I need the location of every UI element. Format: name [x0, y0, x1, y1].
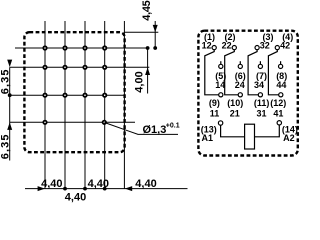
- relay body outline (dashed): [24, 32, 124, 152]
- wire row grid line 4: [10, 121, 135, 123]
- svg-text:A1: A1: [202, 133, 214, 143]
- svg-text:31: 31: [256, 108, 266, 118]
- hole pad r2c1: [43, 66, 46, 69]
- schematic box outline (dashed): [198, 31, 297, 156]
- hole pad r2c4: [103, 66, 106, 69]
- wire row grid line 2: [10, 66, 150, 68]
- coil K1: [221, 124, 280, 149]
- coil terminal A2: [277, 121, 298, 143]
- svg-text:11: 11: [210, 108, 220, 118]
- svg-text:21: 21: [230, 108, 240, 118]
- svg-text:4,40: 4,40: [65, 192, 86, 204]
- wire row grid line 1: [15, 47, 149, 49]
- svg-text:4,40: 4,40: [135, 178, 156, 190]
- hole pad r3c2: [63, 94, 66, 97]
- svg-text:12: 12: [202, 40, 212, 50]
- wire column grid line 2: [64, 21, 66, 189]
- wire column grid line 1: [44, 21, 46, 189]
- svg-text:4,00: 4,00: [134, 71, 146, 92]
- svg-text:41: 41: [273, 108, 283, 118]
- svg-text:44: 44: [276, 80, 286, 90]
- hole pads grid rows 1-3: [43, 46, 106, 124]
- dimension chain 4,40 bottom: [25, 178, 188, 204]
- svg-text:+0.1: +0.1: [166, 122, 180, 129]
- hole pad coil A1: [43, 121, 46, 124]
- svg-text:24: 24: [235, 80, 245, 90]
- hole pad r3c1: [43, 94, 46, 97]
- svg-text:6,35: 6,35: [0, 68, 11, 94]
- hole pad r1c3: [83, 46, 86, 49]
- svg-text:42: 42: [280, 40, 290, 50]
- hole pad r2c2: [63, 66, 66, 69]
- svg-text:4,40: 4,40: [41, 178, 62, 190]
- wire row grid line 3: [10, 94, 126, 96]
- dimension 6,35 upper left: [0, 60, 12, 161]
- svg-text:4,40: 4,40: [88, 178, 109, 190]
- svg-text:(11): (11): [254, 98, 270, 108]
- svg-text:(10): (10): [227, 98, 243, 108]
- svg-text:6,35: 6,35: [0, 133, 11, 159]
- hole pad r3c3: [83, 94, 86, 97]
- hole pad r1c4: [103, 46, 106, 49]
- svg-text:34: 34: [254, 80, 264, 90]
- svg-text:Ø1,3: Ø1,3: [143, 124, 167, 136]
- svg-text:(12): (12): [270, 98, 286, 108]
- hole pad r1c1: [43, 46, 46, 49]
- dimension 4,00 right: [134, 46, 151, 93]
- svg-text:14: 14: [215, 80, 225, 90]
- hole pad r2c3: [83, 66, 86, 69]
- contact pole 2 (terminals 22/24/21): [222, 32, 246, 119]
- svg-text:32: 32: [260, 40, 270, 50]
- contact pole 3 (terminals 32/34/31): [248, 32, 273, 119]
- coil terminal A1: [201, 121, 223, 143]
- svg-text:(9): (9): [209, 98, 220, 108]
- leader callout hole diameter: [105, 122, 180, 136]
- contact pole 1 (terminals 12/14/11): [202, 32, 227, 119]
- wire column grid line 5: [123, 21, 125, 189]
- dimension 6,35 lower left: [0, 122, 12, 159]
- hole pad coil A2: [103, 121, 106, 124]
- dimension 4,45 top: [125, 0, 159, 50]
- wire column grid line 4: [104, 21, 106, 189]
- svg-text:22: 22: [222, 40, 232, 50]
- hole pad r3c4: [103, 94, 106, 97]
- wire column grid line 3: [84, 21, 86, 189]
- svg-text:A2: A2: [283, 133, 295, 143]
- contact pole 4 (terminals 42/44/41): [268, 32, 293, 119]
- svg-text:4,45: 4,45: [141, 0, 153, 20]
- hole pad r1c2: [63, 46, 66, 49]
